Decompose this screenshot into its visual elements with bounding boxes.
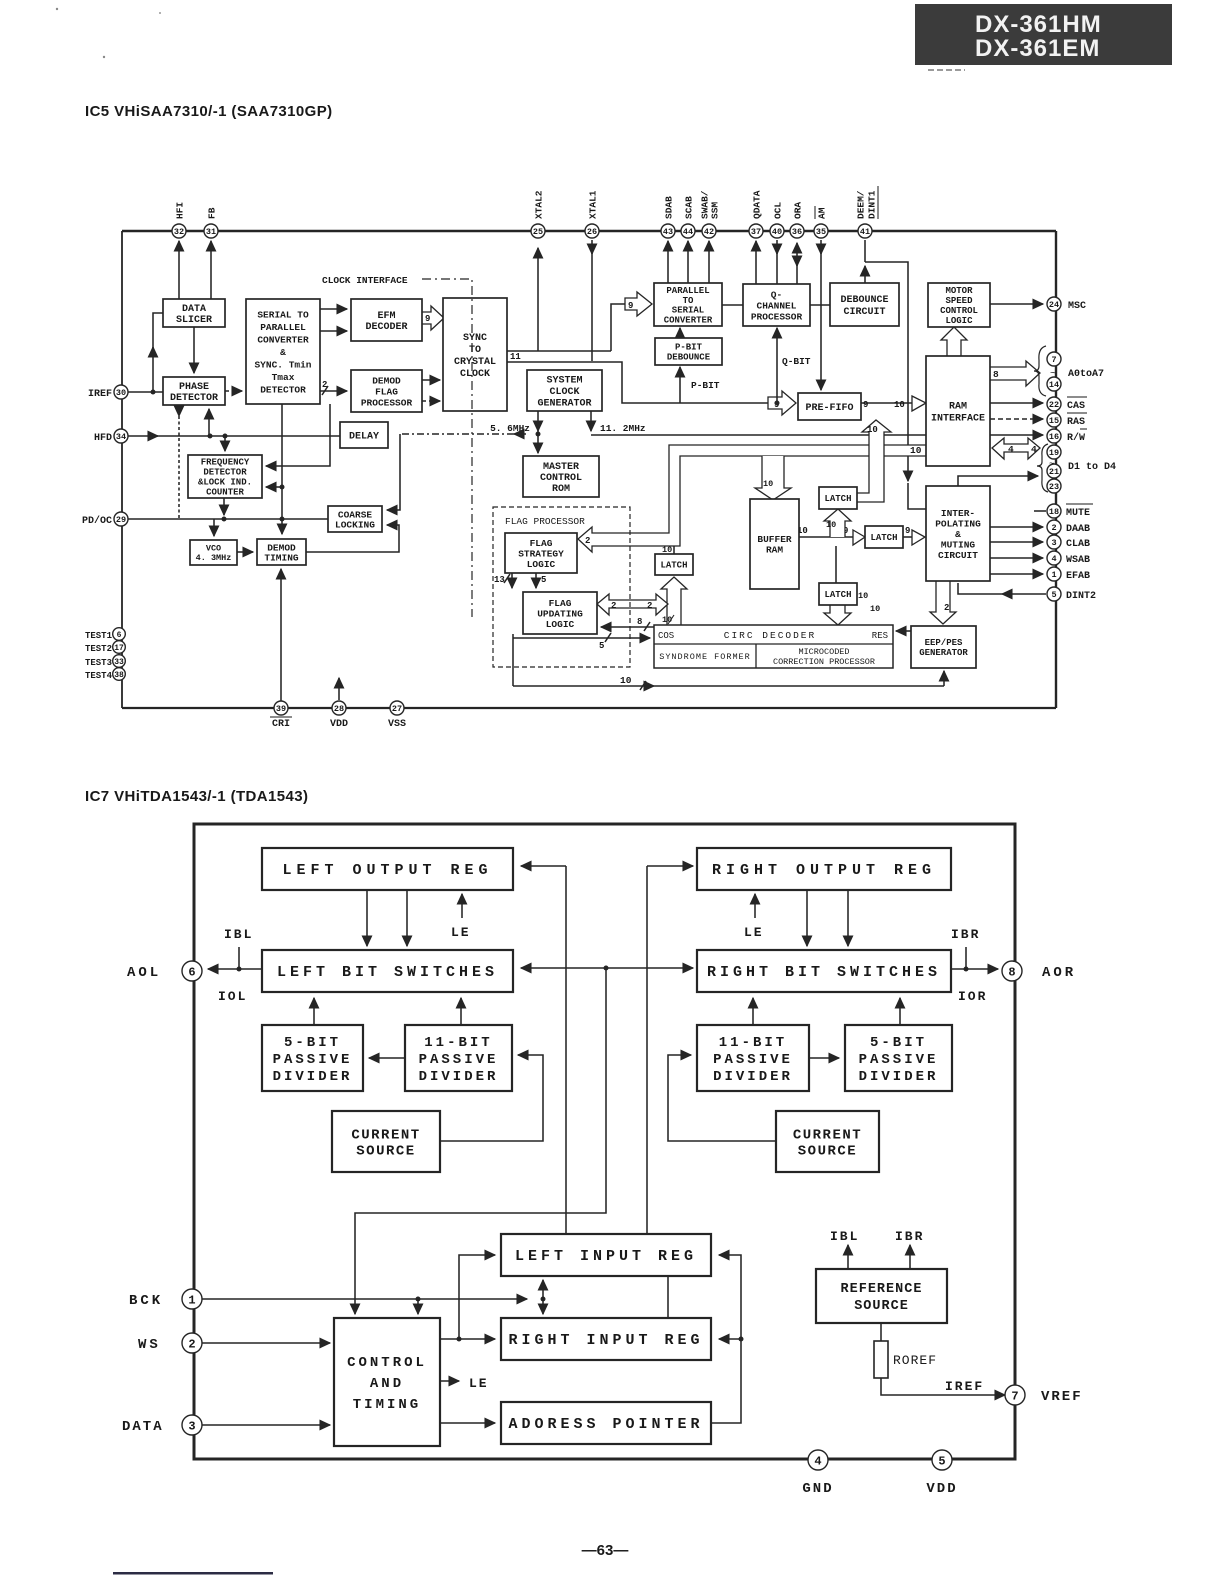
wire HFD line up into PHASE DETECTOR — [208, 409, 210, 436]
svg-text:13: 13 — [494, 575, 505, 585]
svg-text:IBR: IBR — [951, 927, 980, 942]
junction bit switch bus node — [604, 966, 609, 971]
block 5-BIT PASSIVE DIVIDER left — [262, 1025, 363, 1091]
overline DINT1 — [877, 186, 879, 219]
svg-text:&LOCK IND.: &LOCK IND. — [198, 478, 252, 488]
bus arrow 8 to A0-A7 pins — [990, 361, 1040, 386]
block LEFT INPUT REG — [501, 1234, 711, 1276]
svg-text:TEST1: TEST1 — [85, 631, 113, 641]
svg-text:16: 16 — [1049, 432, 1059, 442]
svg-text:MSC: MSC — [1068, 301, 1086, 312]
pin 42 SWAB/SSM — [702, 224, 716, 238]
block BUFFER RAM — [750, 499, 799, 589]
pin 30 IREF — [114, 385, 128, 399]
svg-text:SDAB: SDAB — [663, 196, 674, 219]
pin 27 VSS — [390, 701, 404, 715]
block RAM INTERFACE — [926, 356, 990, 466]
block P-BIT DEBOUNCE — [655, 338, 722, 365]
overline CAS — [1067, 396, 1087, 398]
wire INTERPOLATING to WSAB pin4 — [990, 557, 1043, 559]
svg-text:CIRC DECODER: CIRC DECODER — [724, 630, 816, 641]
wire CONTROL to RIGHT INPUT REG — [440, 1338, 495, 1340]
svg-text:6: 6 — [188, 965, 195, 979]
svg-text:&: & — [955, 529, 961, 540]
svg-text:PARALLEL: PARALLEL — [666, 286, 709, 296]
svg-text:DIVIDER: DIVIDER — [419, 1069, 499, 1085]
svg-text:HFI: HFI — [174, 202, 185, 219]
wire 5-BIT DIVIDER L to LEFT BIT SWITCHES — [313, 998, 315, 1025]
svg-text:9: 9 — [425, 314, 430, 324]
wire AOR pin8 from RIGHT BIT SWITCHES — [951, 968, 998, 970]
svg-text:6: 6 — [117, 631, 122, 640]
svg-text:POLATING: POLATING — [935, 518, 981, 529]
svg-text:IREF: IREF — [88, 389, 112, 400]
wire FB pin31 to DATA SLICER — [210, 241, 212, 299]
svg-text:PROCESSOR: PROCESSOR — [361, 397, 413, 408]
svg-text:INTERFACE: INTERFACE — [931, 414, 985, 425]
pin 31 FB — [204, 224, 218, 238]
bus arrow 9 into PRE-FIFO — [768, 391, 796, 415]
wire Q-CHANNEL PROCESSOR to DEBOUNCE CIRCUIT — [810, 304, 830, 306]
wire FLAG STRATEGY to UPDATING 13-bit — [504, 573, 512, 588]
svg-text:CLOCK: CLOCK — [549, 387, 579, 398]
wire CURRENT SOURCE R to 11-BIT DIVIDER — [668, 1055, 776, 1141]
svg-text:MUTE: MUTE — [1066, 508, 1090, 519]
pin 4 WSAB — [1047, 551, 1061, 565]
svg-text:AOL: AOL — [127, 965, 161, 981]
block LEFT BIT SWITCHES — [262, 950, 513, 992]
svg-text:XTAL1: XTAL1 — [587, 190, 598, 219]
svg-text:43: 43 — [663, 227, 673, 237]
bus arrow 10 LATCH C down into CIRC DECODER — [824, 605, 851, 625]
svg-text:19: 19 — [1049, 448, 1059, 458]
svg-text:TIMING: TIMING — [353, 1397, 421, 1413]
wire DEMOD TIMING to COARSE LOCKING lower input — [306, 525, 399, 552]
IC5 outer boundary right border — [1055, 231, 1057, 708]
svg-text:CORRECTION PROCESSOR: CORRECTION PROCESSOR — [773, 657, 875, 667]
svg-text:DX-361HM: DX-361HM — [975, 11, 1102, 38]
svg-text:SPEED: SPEED — [945, 296, 973, 306]
smudge under header box — [928, 69, 965, 71]
svg-text:P-BIT: P-BIT — [675, 343, 703, 353]
svg-text:RIGHT BIT SWITCHES: RIGHT BIT SWITCHES — [707, 964, 941, 981]
svg-text:44: 44 — [683, 227, 693, 237]
wire BUFFER RAM to LATCH B — [799, 536, 855, 538]
wire RIGHT OUTPUT REG to RIGHT BIT SWITCHES a — [806, 890, 808, 946]
svg-text:5: 5 — [1051, 590, 1056, 600]
svg-text:BCK: BCK — [129, 1293, 163, 1309]
flag processor dashed container — [493, 507, 630, 667]
pin 3 CLAB — [1047, 535, 1061, 549]
svg-text:3: 3 — [1051, 538, 1056, 548]
svg-text:11: 11 — [510, 352, 521, 362]
svg-text:24: 24 — [1049, 300, 1059, 310]
svg-text:4: 4 — [1008, 444, 1014, 455]
svg-text:17: 17 — [114, 644, 124, 653]
wire LE into RIGHT OUTPUT REG — [754, 894, 756, 918]
block 11-BIT PASSIVE DIVIDER right — [697, 1025, 809, 1091]
block LATCH C — [819, 583, 857, 605]
svg-text:ADORESS POINTER: ADORESS POINTER — [508, 1416, 703, 1433]
wire HFD pin34 to DELAY — [128, 435, 340, 437]
IC7 outer boundary — [194, 824, 1015, 1459]
wire FREQUENCY DETECTOR down to PD/OC line — [223, 498, 225, 515]
overline MUTE — [1066, 503, 1093, 505]
bottom left rule — [113, 1572, 273, 1575]
junction BCK at reg bus — [541, 1297, 546, 1302]
pin 28 VDD — [332, 701, 346, 715]
svg-text:Q-: Q- — [771, 289, 782, 300]
pin 15 RAS — [1047, 413, 1061, 427]
resistor ROREF — [874, 1341, 937, 1378]
block 5-BIT PASSIVE DIVIDER right — [845, 1025, 952, 1091]
wire 11-BIT DIVIDER R to RIGHT BIT SWITCHES — [752, 998, 754, 1025]
wire SERIAL-PARALLEL to EFM DECODER lower — [320, 330, 347, 332]
IC5 outer boundary left border — [121, 231, 123, 708]
svg-text:8: 8 — [1008, 965, 1015, 979]
svg-text:RAM: RAM — [766, 545, 783, 556]
svg-text:SOURCE: SOURCE — [798, 1143, 857, 1159]
wire 8-bit CIRC to FLAG UPDATING LOGIC — [601, 622, 654, 631]
svg-text:PD/OC: PD/OC — [82, 515, 112, 527]
svg-text:XTAL2: XTAL2 — [533, 190, 544, 219]
bus arrow 2 INTERPOLATING down into EEP/PES — [930, 581, 956, 624]
svg-text:MASTER: MASTER — [543, 462, 579, 473]
wire LE into LEFT OUTPUT REG — [461, 894, 463, 918]
svg-text:LATCH: LATCH — [660, 561, 687, 571]
pin 8 AOR — [1002, 961, 1022, 981]
block INTERPOLATING MUTING CIRCUIT — [926, 486, 990, 581]
svg-text:CHANNEL: CHANNEL — [757, 300, 797, 311]
wire IREF pin30 to PHASE DETECTOR — [128, 313, 163, 392]
svg-text:7: 7 — [1011, 1389, 1018, 1403]
svg-text:CURRENT: CURRENT — [793, 1127, 862, 1143]
wire SERIAL-PARALLEL to DEMOD FLAG PROCESSOR 2-bit — [320, 386, 347, 395]
svg-text:VSS: VSS — [388, 719, 406, 730]
wire SWAB/SSM pin42 — [708, 241, 710, 283]
block DELAY — [340, 422, 388, 448]
svg-text:AOR: AOR — [1042, 965, 1076, 981]
svg-text:9: 9 — [628, 301, 633, 311]
block RIGHT OUTPUT REG — [697, 848, 951, 890]
wire CONTROL to LEFT INPUT REG — [459, 1255, 495, 1339]
svg-text:PASSIVE: PASSIVE — [273, 1052, 353, 1068]
pin 7 VREF — [1005, 1385, 1025, 1405]
wire MUTE pin18 net — [958, 476, 1046, 511]
model number header box — [915, 4, 1172, 65]
svg-text:5-BIT: 5-BIT — [870, 1035, 927, 1051]
svg-text:DECODER: DECODER — [365, 322, 407, 333]
svg-text:DETECTOR: DETECTOR — [260, 384, 306, 395]
svg-text:—63—: —63— — [582, 1542, 629, 1559]
svg-text:10: 10 — [910, 445, 922, 456]
wire WS pin2 — [202, 1342, 330, 1344]
svg-text:SOURCE: SOURCE — [854, 1299, 909, 1314]
address pin group brace A0toA7 — [1034, 346, 1046, 396]
svg-text:EFAB: EFAB — [1066, 571, 1090, 582]
pin 5 DINT2 — [1047, 587, 1061, 601]
svg-text:CLOCK INTERFACE: CLOCK INTERFACE — [322, 275, 408, 286]
svg-text:10: 10 — [826, 520, 836, 530]
svg-text:PASSIVE: PASSIVE — [859, 1052, 939, 1068]
pin 2 WS — [182, 1333, 202, 1353]
wire XTAL2 pin25 down — [537, 248, 539, 351]
svg-text:WSAB: WSAB — [1066, 555, 1090, 566]
svg-text:CONVERTER: CONVERTER — [257, 334, 309, 345]
pin 22 CAS — [1047, 397, 1061, 411]
svg-text:2: 2 — [1051, 523, 1056, 533]
svg-text:LEFT OUTPUT REG: LEFT OUTPUT REG — [282, 862, 492, 879]
bus 10 band RAM INTERFACE to FLAG STRATEGY LOGIC — [578, 445, 926, 552]
wire INTERPOLATING to CLAB pin3 — [990, 541, 1043, 543]
wire 5.6MHz line down to COARSE LOCKING upper input — [387, 434, 400, 510]
svg-text:10: 10 — [858, 591, 868, 601]
wire SERIAL-PARALLEL to EFM DECODER upper — [320, 308, 347, 310]
pin 33 TEST3 — [113, 655, 126, 668]
block DEBOUNCE CIRCUIT — [830, 283, 899, 326]
svg-text:TEST2: TEST2 — [85, 644, 112, 654]
svg-text:LATCH: LATCH — [824, 590, 851, 600]
block ADORESS POINTER — [501, 1402, 711, 1444]
svg-text:37: 37 — [751, 227, 761, 237]
wire RIGHT OUTPUT REG to RIGHT BIT SWITCHES b — [847, 890, 849, 946]
svg-text:IOR: IOR — [958, 989, 987, 1004]
bus arrowhead into LATCH B — [853, 530, 865, 545]
svg-text:LOGIC: LOGIC — [527, 559, 556, 570]
pin 26 XTAL1 — [585, 224, 599, 238]
svg-text:ORA: ORA — [792, 202, 803, 219]
svg-text:18: 18 — [1049, 507, 1059, 517]
junction 5.6MHz node — [536, 432, 541, 437]
overline W — [1080, 428, 1087, 430]
wire PRE-FIFO to RAM INTERFACE — [861, 402, 913, 404]
block FREQUENCY DETECTOR LOCK COUNTER — [188, 455, 262, 498]
svg-text:IBR: IBR — [895, 1229, 924, 1244]
svg-text:TEST4: TEST4 — [85, 671, 113, 681]
svg-text:SYNC. Tmin: SYNC. Tmin — [254, 359, 311, 370]
pin 1 BCK — [182, 1289, 202, 1309]
svg-text:8: 8 — [993, 369, 999, 380]
svg-text:GENERATOR: GENERATOR — [919, 648, 968, 658]
svg-text:15: 15 — [1049, 416, 1059, 426]
svg-text:GENERATOR: GENERATOR — [537, 399, 591, 410]
svg-text:2: 2 — [322, 380, 327, 390]
pin 6 AOL — [182, 961, 202, 981]
svg-text:LOGIC: LOGIC — [945, 316, 973, 326]
bus arrowhead into INTERPOLATING — [912, 530, 925, 545]
wire P-BIT DEBOUNCE to PARALLEL-SERIAL — [679, 328, 681, 338]
wire DATA pin3 — [202, 1424, 330, 1426]
svg-text:11-BIT: 11-BIT — [424, 1035, 492, 1051]
data pin group brace D1toD4 — [1037, 444, 1048, 492]
svg-text:36: 36 — [792, 227, 802, 237]
svg-text:CAS: CAS — [1067, 401, 1085, 412]
wire ORA pin36 bidirectional — [796, 243, 798, 284]
svg-text:25: 25 — [533, 227, 543, 237]
svg-text:TO: TO — [683, 296, 694, 306]
wire SYNC-to-crystal bus A to PARALLEL-SERIAL — [507, 304, 627, 351]
svg-text:LOGIC: LOGIC — [546, 619, 575, 630]
svg-text:D1 to D4: D1 to D4 — [1068, 462, 1116, 473]
pin 41 DEEM/DINT1 — [858, 224, 872, 238]
wire PD/OC line down to VCO — [213, 519, 215, 536]
wire INTERPOLATING to EFAB pin1 — [990, 573, 1043, 575]
svg-text:VDD: VDD — [330, 719, 348, 730]
svg-text:IC7 VHiTDA1543/-1 (TDA1543): IC7 VHiTDA1543/-1 (TDA1543) — [85, 788, 308, 805]
svg-text:2: 2 — [611, 601, 616, 611]
block FLAG UPDATING LOGIC — [523, 592, 597, 634]
block PARALLEL TO SERIAL CONVERTER — [654, 283, 722, 326]
svg-text:DIVIDER: DIVIDER — [859, 1069, 939, 1085]
page specks — [56, 8, 58, 10]
svg-text:RAM: RAM — [949, 402, 967, 413]
svg-text:11. 2MHz: 11. 2MHz — [600, 423, 646, 434]
svg-text:14: 14 — [1049, 380, 1059, 390]
wire BCK pin1 — [202, 1298, 527, 1300]
svg-text:DIVIDER: DIVIDER — [273, 1069, 353, 1085]
wire IBR stub — [965, 947, 967, 969]
slash latch D bottom — [668, 615, 674, 624]
bus arrow RAM INTERFACE up to MOTOR SPEED CONTROL LOGIC — [941, 327, 967, 356]
wire FLAG UPDATING 5-bit to CIRC DECODER — [513, 633, 650, 686]
wire RAS output — [990, 418, 1043, 420]
junction S2P vertical at PD/OC line — [280, 517, 285, 522]
junction IREF node — [151, 390, 156, 395]
pin 4 GND — [808, 1450, 828, 1470]
bus arrow 2-2 bidirectional FLAG UPDATING to bus — [597, 594, 668, 615]
wire 5-BIT DIVIDER R to RIGHT BIT SWITCHES — [899, 998, 901, 1025]
svg-text:GND: GND — [802, 1481, 833, 1497]
svg-text:35: 35 — [816, 227, 826, 237]
bus arrow 10 LATCH A up into PRE-FIFO — [857, 420, 891, 502]
svg-text:42: 42 — [704, 227, 714, 237]
svg-text:PROCESSOR: PROCESSOR — [751, 311, 803, 322]
svg-text:EFM: EFM — [377, 311, 395, 322]
svg-text:MOTOR: MOTOR — [945, 286, 973, 296]
svg-text:21: 21 — [1049, 467, 1059, 477]
svg-text:CURRENT: CURRENT — [351, 1127, 420, 1143]
junction IBR node — [964, 967, 969, 972]
svg-text:DEEM/: DEEM/ — [855, 190, 866, 219]
pin 24 MSC — [1047, 297, 1061, 311]
pin 23 D4 — [1047, 479, 1061, 493]
wire LEFT OUTPUT REG to LEFT BIT SWITCHES a — [366, 890, 368, 946]
svg-text:3: 3 — [188, 1419, 195, 1433]
wire 11-BIT DIVIDER L to LEFT BIT SWITCHES — [460, 998, 462, 1025]
svg-text:4: 4 — [814, 1454, 821, 1468]
svg-text:34: 34 — [116, 432, 126, 442]
wire CURRENT SOURCE L to 11-BIT DIVIDER — [440, 1055, 543, 1141]
svg-text:10: 10 — [763, 479, 773, 489]
pin 7 A0 — [1047, 352, 1061, 366]
wire OCL pin40 input — [776, 240, 778, 284]
svg-text:29: 29 — [116, 515, 126, 525]
svg-text:27: 27 — [392, 704, 402, 714]
svg-text:33: 33 — [114, 658, 124, 667]
svg-text:&: & — [280, 347, 286, 358]
svg-text:31: 31 — [206, 227, 216, 237]
overline AM — [814, 206, 816, 219]
svg-text:LE: LE — [744, 925, 764, 940]
clock interface dash-dot line — [422, 279, 472, 617]
pin 39 CRI — [274, 701, 288, 715]
svg-text:1: 1 — [1051, 570, 1056, 580]
wire SYSTEM CLOCK GEN 5.6MHz output to MASTER CONTROL ROM — [537, 411, 539, 453]
svg-text:DAAB: DAAB — [1066, 524, 1090, 535]
svg-text:38: 38 — [114, 671, 124, 680]
junction IBL node — [237, 967, 242, 972]
bus arrow 10 up into LATCH A — [824, 509, 851, 537]
svg-text:5: 5 — [541, 575, 546, 585]
svg-text:SYNDROME FORMER: SYNDROME FORMER — [659, 652, 751, 662]
bus arrow 10 CIRC DECODER up into LATCH D — [661, 577, 687, 625]
svg-text:FLAG: FLAG — [530, 538, 553, 549]
block FLAG STRATEGY LOGIC — [505, 533, 577, 573]
svg-text:P-BIT: P-BIT — [691, 380, 720, 391]
svg-text:QDATA: QDATA — [751, 190, 762, 219]
svg-text:RAS: RAS — [1067, 417, 1085, 428]
pin 35 AM — [814, 224, 828, 238]
svg-text:R/W: R/W — [1067, 432, 1085, 444]
wire DEMOD FLAG PROCESSOR to SYNC upper — [422, 379, 440, 381]
wire P-BIT branch to P-BIT DEBOUNCE — [679, 367, 681, 403]
svg-text:PRE-FIFO: PRE-FIFO — [805, 403, 853, 414]
wire FLAG STRATEGY to UPDATING 5-bit — [535, 573, 537, 588]
wire reg clock bus down — [542, 1299, 544, 1314]
wire DATA SLICER to PHASE DETECTOR — [193, 327, 195, 373]
block SYSTEM CLOCK GENERATOR — [527, 370, 602, 411]
svg-text:5: 5 — [938, 1454, 945, 1468]
svg-text:2: 2 — [647, 601, 652, 611]
wire branch to FREQUENCY DETECTOR lower input — [266, 486, 282, 488]
wire R/W output — [990, 434, 1043, 436]
block VCO 4.3MHz — [190, 540, 237, 565]
pin 16 R/W — [1047, 429, 1061, 443]
svg-text:2: 2 — [188, 1337, 195, 1351]
junction BCK at control — [416, 1297, 421, 1302]
pin 40 OCL — [770, 224, 784, 238]
svg-text:COUNTER: COUNTER — [206, 488, 244, 498]
svg-text:SERIAL TO: SERIAL TO — [257, 309, 309, 320]
svg-text:LATCH: LATCH — [824, 494, 851, 504]
svg-text:OCL: OCL — [772, 202, 783, 219]
svg-text:10: 10 — [870, 604, 880, 614]
wire SDAB pin43 — [667, 241, 669, 283]
svg-text:LEFT BIT SWITCHES: LEFT BIT SWITCHES — [277, 964, 498, 981]
svg-text:STRATEGY: STRATEGY — [518, 548, 564, 559]
svg-text:IREF: IREF — [945, 1379, 984, 1394]
wire BCK branch into CONTROL AND TIMING — [417, 1299, 419, 1314]
svg-text:FB: FB — [206, 207, 217, 219]
svg-text:IC5 VHiSAA7310/-1 (SAA7310GP): IC5 VHiSAA7310/-1 (SAA7310GP) — [85, 103, 333, 120]
wire LE output — [440, 1380, 459, 1382]
wire FLAG UPDATING 10-bit to EEP/PES GENERATOR — [513, 671, 944, 690]
svg-text:10: 10 — [894, 400, 905, 410]
svg-text:LOCKING: LOCKING — [335, 519, 375, 530]
svg-text:ROREF: ROREF — [893, 1353, 937, 1368]
pin 38 TEST4 — [113, 668, 126, 681]
wire AOL pin6 from LEFT BIT SWITCHES — [208, 968, 262, 970]
pin 17 TEST2 — [113, 641, 126, 654]
svg-text:SYSTEM: SYSTEM — [546, 376, 582, 387]
svg-text:LEFT INPUT REG: LEFT INPUT REG — [515, 1248, 697, 1265]
wire LEFT OUTPUT REG to LEFT BIT SWITCHES b — [406, 890, 408, 946]
svg-text:5: 5 — [599, 641, 604, 651]
svg-text:9: 9 — [863, 400, 868, 410]
svg-text:VDD: VDD — [926, 1481, 957, 1497]
block LEFT OUTPUT REG — [262, 848, 513, 890]
svg-text:28: 28 — [334, 704, 344, 714]
